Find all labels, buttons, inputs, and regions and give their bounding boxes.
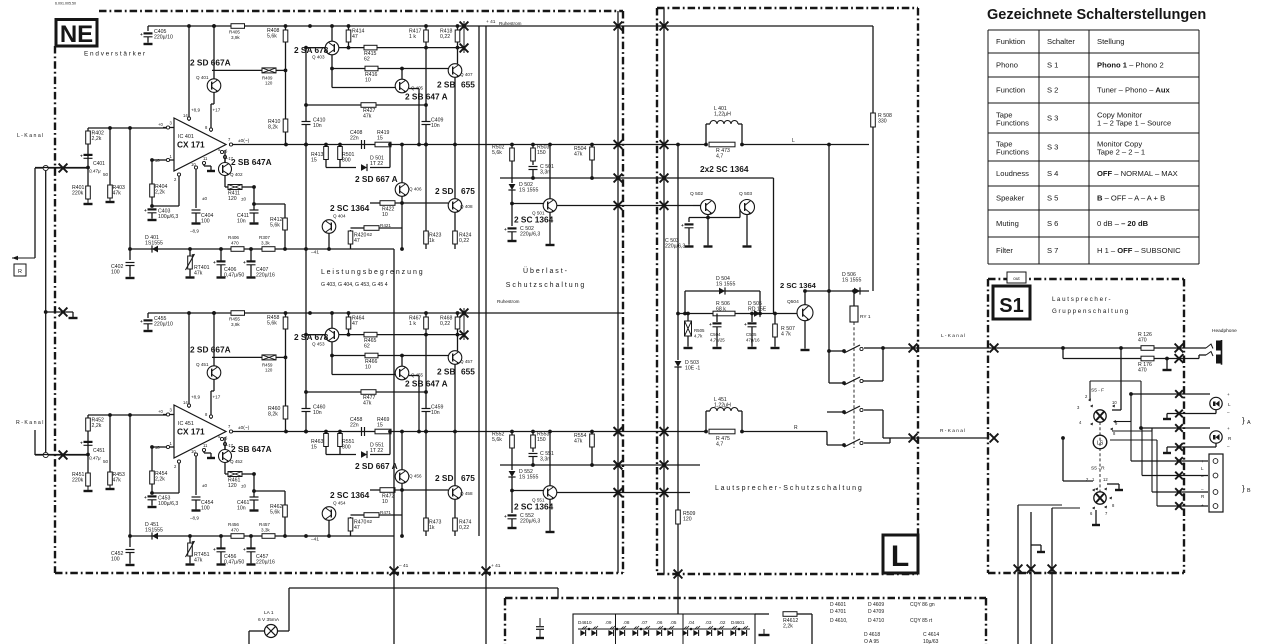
diode D506 1S1555 [854,288,860,295]
capacitor C4614 symbol [539,618,541,626]
svg-text:Q 503: Q 503 [739,191,752,197]
fusible resistor R505 4,7k [687,314,689,322]
svg-text:50: 50 [103,172,109,177]
ground C405 [147,40,149,44]
resistor R406 470 [231,247,244,252]
svg-text:R456: R456 [228,522,239,527]
svg-text:+: + [243,261,246,266]
relay contact 3 R-A [827,411,844,413]
svg-text:LA 1: LA 1 [264,610,274,616]
resistor R427 47k [361,103,376,108]
svg-text:100µ/6,3: 100µ/6,3 [158,501,178,507]
wire pin2 to feedback [178,462,180,494]
transistor Q402 2 SB 647A feedback [219,163,232,176]
wire Q502 Q503 emitters [707,215,709,246]
svg-text:5,6k: 5,6k [492,150,502,156]
svg-text:+: + [144,209,147,214]
svg-text:10n: 10n [313,123,322,129]
svg-text:1,22µH: 1,22µH [714,402,731,408]
svg-text:47: 47 [352,34,358,40]
svg-text:47k: 47k [363,113,372,119]
wire bias row 3 [332,68,448,70]
svg-text:15: 15 [377,422,383,428]
svg-text:47k: 47k [113,190,122,196]
svg-text:S 3: S 3 [1047,114,1058,123]
svg-text:S 3: S 3 [1047,143,1058,152]
wire Q403 collector [331,313,333,328]
wire protection rail B [557,205,623,207]
svg-text:2 SB: 2 SB [437,367,455,377]
resistor R551 300 [339,432,341,455]
svg-text:675: 675 [461,473,475,483]
wire rail 178 to box2 [623,177,774,179]
capacitor C409 10n [422,121,431,123]
svg-text:Ü b e r l a s t -: Ü b e r l a s t - [523,267,568,275]
capacitor C451 0,47u [84,441,93,443]
svg-text:10: 10 [365,364,371,370]
wire +41 rail [148,25,623,27]
svg-text:5,6k: 5,6k [270,509,280,515]
capacitor C403 100u [148,208,157,210]
transistor Q404 2 SC 1364 [322,220,336,234]
wire bias row 3 [332,355,448,357]
wire protection rail B [557,492,623,494]
switch position table [988,29,1199,31]
svg-text:5,6k: 5,6k [492,437,502,443]
wire Q504 collector [804,291,806,305]
diode D503 10E-1 [675,361,682,367]
svg-text:120: 120 [683,516,692,522]
resistor R508 330 [871,113,876,127]
wire +41 drop to R508 [872,26,874,113]
svg-text:Q 402: Q 402 [230,172,243,177]
fusible resistor R409 120 [212,69,262,71]
wire +41 bus [485,26,487,644]
svg-text:120: 120 [228,196,237,202]
svg-text:+17: +17 [213,395,221,400]
svg-text:2 SC 1364: 2 SC 1364 [330,490,370,500]
resistor R502 5,6k [511,145,513,184]
svg-text:2 SB: 2 SB [437,80,455,90]
svg-text:1S 1555: 1S 1555 [842,277,861,283]
ground op-amp pin 11 [210,167,212,171]
svg-text:out: out [1013,276,1020,281]
resistor R423 1k [425,145,427,250]
svg-text:±0: ±0 [241,197,247,202]
svg-text:50: 50 [103,459,109,464]
wire +41 rail to box2 [623,25,873,27]
resistor R419 15 [375,142,391,147]
svg-text:.09: .09 [605,620,612,625]
resistor R509 120 [676,510,681,524]
svg-text:S 2: S 2 [1047,86,1058,95]
wire R net to contacts [742,431,827,433]
resistor R403 47k [109,128,111,198]
wire C411 to R412 row [254,490,285,492]
svg-text:Q 401: Q 401 [196,75,209,80]
wire L input [35,167,88,169]
speaker A-R icon [1210,431,1222,443]
capacitor C459 10n [422,408,431,410]
transistor Q503 2 SC 1364 [740,200,755,215]
svg-text:Functions: Functions [996,147,1029,156]
resistor R401 220k [87,168,89,201]
svg-text:4,7: 4,7 [716,153,723,159]
svg-text:+: + [243,548,246,553]
transistor Q454 2 SC 1364 [322,507,336,521]
ground Q502 [707,243,709,247]
capacitor C455 220u/10 [147,313,149,318]
inductor L451 1,22uH [705,411,707,432]
svg-text:L - K a n a l: L - K a n a l [941,333,965,339]
svg-text:.04: .04 [688,620,695,625]
relay contact 1 L-A [829,350,844,352]
svg-text:62: 62 [367,519,373,524]
resistor R474 0,22 [454,499,456,536]
wire long bus x479 [478,26,480,536]
diode D502 1S1555 [509,184,516,190]
NE section label box [56,20,97,47]
wire Q401 emitter to pin8 [213,379,215,391]
X marks B lines [1175,457,1183,465]
svg-text:2 SB 647 A: 2 SB 647 A [405,92,448,102]
ground speaker L minus [1166,414,1168,419]
svg-text:–8,9: –8,9 [190,229,199,234]
resistor R418 0,22 [457,26,459,64]
wire sense bus x618 [617,11,619,573]
relay RY1 coil [853,291,855,306]
pin 3 non-inverting [163,414,174,416]
wire rail 431.5 gap crossing [623,431,657,433]
svg-text:+: + [504,515,507,520]
resistor R404 2,2k [151,160,153,206]
svg-text:2 SB 647A: 2 SB 647A [231,444,272,454]
wire L rail into box2 [623,144,706,146]
capacitor C505 47u/16 [751,314,753,323]
wire -41 row [130,535,394,537]
svg-text:1S 1555: 1S 1555 [716,281,735,287]
svg-text:5,6k: 5,6k [270,222,280,228]
trimmer RT401 47k [189,249,191,256]
svg-text:120: 120 [265,81,273,86]
capacitor C456 0,47u/50 [220,536,222,548]
svg-text:47k: 47k [113,477,122,483]
svg-text:R505: R505 [694,328,705,333]
resistor R471 62 [364,513,379,518]
svg-text:Schalter: Schalter [1047,37,1075,46]
resistor R503 150 [532,145,534,166]
svg-text:220µ/6,3: 220µ/6,3 [520,231,540,237]
wire box2 left bus [677,145,679,361]
svg-text:5,6k: 5,6k [267,33,277,39]
svg-text:+8,9: +8,9 [191,395,201,400]
svg-text:Q504: Q504 [787,299,799,305]
svg-text:Function: Function [996,86,1025,95]
wire rail 492.5 to box2 [623,492,690,494]
capacitor C453 100u [148,495,157,497]
pin 14 supply [188,313,190,408]
resistor R416 10 [365,66,378,71]
svg-text:2x2 SC 1364: 2x2 SC 1364 [700,164,749,174]
ground R401 [87,487,89,491]
X marks -41/+41 bottom [390,567,399,576]
speaker output wires A [1131,393,1210,395]
Ruhestrom X marks [460,22,469,31]
svg-text:Funktion: Funktion [996,37,1025,46]
svg-text:+0: +0 [158,409,163,414]
wire -41 row [130,248,394,250]
svg-text:.05: .05 [670,620,677,625]
capacitor C503 220u/6,3 [688,218,690,223]
svg-text:Stellung: Stellung [1097,37,1124,46]
transistor Q501 2 SC 1364 protection [549,145,551,200]
svg-text:6.091.005.50: 6.091.005.50 [55,2,76,6]
wire output rail +-0 [231,144,623,146]
svg-text:4,7: 4,7 [716,441,723,447]
capacitor C504 4,7u/25 [716,314,718,323]
main amplifier section border (dash-dot) [99,10,623,12]
svg-text:+: + [80,442,83,447]
diode D504 1S1555 bridge [685,290,760,292]
svg-text:10n: 10n [313,410,322,416]
capacitor C460 10n [305,335,307,409]
svg-text:22n: 22n [350,135,359,141]
svg-text:L: L [891,540,909,573]
svg-text:220µ/10: 220µ/10 [154,321,173,327]
capacitor C458 22n [361,427,363,436]
svg-text:3,3n: 3,3n [540,456,550,462]
crossing X output rail at bus [614,427,623,436]
resistor R452 2,2k [87,415,89,455]
transistor Q455 2 SB 647A [395,366,409,380]
svg-text:C504: C504 [710,332,721,337]
svg-text:±0(~): ±0(~) [238,138,250,144]
svg-text:Q 452: Q 452 [230,459,243,464]
pin 11 [203,449,205,453]
capacitor C405 220u/10 [147,26,149,31]
resistor R466 10 [365,353,378,358]
svg-text:OFF – NORMAL – MAX: OFF – NORMAL – MAX [1097,169,1178,178]
svg-text:2 SD 667A: 2 SD 667A [190,345,231,355]
resistor R472 10 [380,488,395,493]
svg-text:–41: –41 [311,537,319,543]
input connector R [43,452,48,457]
svg-text:0,22: 0,22 [459,525,469,531]
pin 11 [203,162,205,166]
svg-text:3,9k: 3,9k [231,322,240,327]
op-amp IC451 CX 171 [174,405,226,458]
svg-text:330: 330 [878,118,887,124]
svg-text:8,2k: 8,2k [268,411,278,417]
svg-text:1k: 1k [429,525,435,531]
wire -41 bus down [393,249,395,644]
wire C411 to R412 row [254,203,285,205]
svg-text:47k: 47k [194,270,203,276]
wire R427 row [306,104,426,106]
svg-text:+: + [140,320,143,325]
svg-text:10: 10 [191,162,196,167]
relay contact 4 R-B [827,444,844,446]
capacitor C552 220u/6,3 [508,514,517,516]
transistor Q403 2 SA 678 [325,41,339,55]
svg-text:10µ/63: 10µ/63 [923,639,939,644]
svg-text:4,7µ/25: 4,7µ/25 [710,337,725,342]
svg-text:S c h u t z s c h a l t u n g: S c h u t z s c h a l t u n g [506,282,585,289]
svg-text:1k: 1k [429,238,435,244]
svg-text:+: + [80,155,83,160]
wire Q407 emitter down [454,77,456,198]
svg-text:4,7k: 4,7k [694,333,703,338]
svg-text:3,9k: 3,9k [231,35,240,40]
resistor R473 1k [425,432,427,537]
svg-text:+: + [1201,459,1204,464]
transistor Q408 2 SD 675 [448,199,462,213]
resistor R422 10 [380,201,395,206]
diode D551 1T22 [326,454,356,456]
wire contact outputs L [864,347,880,349]
resistor R410 8,2k [283,119,288,132]
pin 10 [195,166,197,208]
wire input top rail [88,127,166,129]
crossing X on R input [59,451,68,460]
wire D506 row [805,290,869,292]
pin 5 6 [220,437,223,440]
L section label box [883,535,918,573]
resistor R454 2,2k [151,447,153,493]
svg-text:220µ/16: 220µ/16 [256,272,275,278]
svg-text:2,2k: 2,2k [155,189,165,195]
resistor R506 68k [713,311,735,316]
wire Q502 base [693,205,701,207]
svg-text:2 SA 678: 2 SA 678 [294,332,329,342]
svg-text:Tuner – Phono – Aux: Tuner – Phono – Aux [1097,86,1171,95]
svg-text:+0: +0 [158,122,163,127]
svg-text:+: + [140,33,143,38]
svg-text:2 SD 667 A: 2 SD 667 A [355,174,398,184]
terminal strip B [1209,454,1223,512]
svg-text:11: 11 [203,156,208,161]
svg-text:1S1555: 1S1555 [145,527,163,533]
svg-text:1T 22: 1T 22 [370,161,383,167]
svg-text:S 1: S 1 [1047,61,1058,70]
resistor R453 47k [109,415,111,485]
svg-text:D 4610,: D 4610, [830,618,848,624]
resistor R553 150 [532,432,534,453]
svg-text:675: 675 [461,186,475,196]
capacitor C402 100 [126,262,135,264]
wire bias base row [678,313,797,315]
svg-text:0,47µ/50: 0,47µ/50 [224,559,244,565]
svg-text:Phono 1 – Phono 2: Phono 1 – Phono 2 [1097,61,1164,70]
svg-text:+: + [744,323,747,328]
capacitor C501 3,3n [529,166,538,168]
pin 3 non-inverting [163,127,174,129]
resistor R467 1k [425,313,427,408]
svg-text:0,47µ/50: 0,47µ/50 [224,272,244,278]
ground C411 [253,220,255,224]
wire input row [35,167,88,169]
resistor R4612 2,2k [783,612,797,617]
svg-text:10: 10 [365,77,371,83]
svg-text:R405: R405 [229,30,240,35]
wire pin1 feedback row [152,159,163,161]
resistor R475 4,7 [709,429,735,434]
svg-text:1 – 2 Tape 1 – Source: 1 – 2 Tape 1 – Source [1097,118,1171,127]
inductor L401 1,22uH [705,124,707,145]
wire output rail +-0 [231,431,623,433]
resistor R413 15 [325,145,327,168]
wire L net to relay [742,144,869,146]
svg-text:+8,9: +8,9 [191,108,201,113]
resistor R415 62 [364,45,377,50]
svg-text:L e i s t u n g s b e g r e n: L e i s t u n g s b e g r e n z u n g [321,269,423,276]
svg-text:10: 10 [191,449,196,454]
resistor R463 15 [325,432,327,455]
svg-text:1S 1555: 1S 1555 [519,187,538,193]
transistor Q551 2 SC 1364 protection [549,432,551,487]
svg-text:0,22: 0,22 [459,238,469,244]
junction L to switch drop [1119,346,1123,350]
svg-text:120: 120 [265,368,273,373]
svg-text:6 V 35mA: 6 V 35mA [258,617,280,623]
resistor R504 47k [591,145,593,179]
fusible resistor R459 120 [212,356,262,358]
svg-text:L - K a n a l: L - K a n a l [17,133,43,139]
svg-text:1 k: 1 k [409,321,416,327]
svg-text:Q 453: Q 453 [312,342,325,347]
resistor R469 15 [375,429,391,434]
svg-text:220µ/10: 220µ/10 [154,34,173,40]
svg-text:0,47µ: 0,47µ [89,456,101,461]
svg-text:S5 - R: S5 - R [1091,466,1105,472]
wire R409 to R410 [276,356,286,358]
relay contact 2 L-B [829,382,844,384]
svg-text:±0: ±0 [202,196,208,201]
svg-text:Q 404: Q 404 [333,214,346,219]
wire L-Kanal through S1 [988,347,1141,349]
speaker A-L icon [1210,397,1222,409]
svg-text:3,3k: 3,3k [261,528,270,533]
pin 1 inverting [163,159,174,161]
svg-text:G r u p p e n s c h a l t u n: G r u p p e n s c h a l t u n g [1052,308,1129,315]
wire Q405 emitter [409,88,419,90]
svg-text:Q 403: Q 403 [312,55,325,60]
resistor R458 5,6k [283,317,288,329]
pin 10 [195,453,197,495]
svg-text:300: 300 [342,444,351,450]
svg-text:–: – [1201,487,1204,492]
wire Q403 emitter [331,342,333,375]
svg-text:62: 62 [364,343,370,349]
resistor R412 5,6k moved [284,204,286,249]
svg-text:.06: .06 [656,620,663,625]
svg-text:68 k: 68 k [716,306,726,312]
svg-text:+: + [213,261,216,266]
svg-text:100µ/6,3: 100µ/6,3 [158,214,178,220]
svg-text:+: + [213,548,216,553]
svg-text:Q 457: Q 457 [460,359,473,364]
ground stub at left border [46,311,73,313]
wire rail 465 to box2 [623,464,700,466]
resistor R421 62 [364,226,379,231]
relay actuator dashed [853,322,855,448]
svg-text:Speaker: Speaker [996,194,1025,203]
resistor R468 0,22 [457,313,459,351]
svg-text:D 4701: D 4701 [830,609,846,615]
svg-text:10: 10 [1112,400,1117,405]
svg-text:R406: R406 [228,235,239,240]
ground Q501 [549,499,551,531]
